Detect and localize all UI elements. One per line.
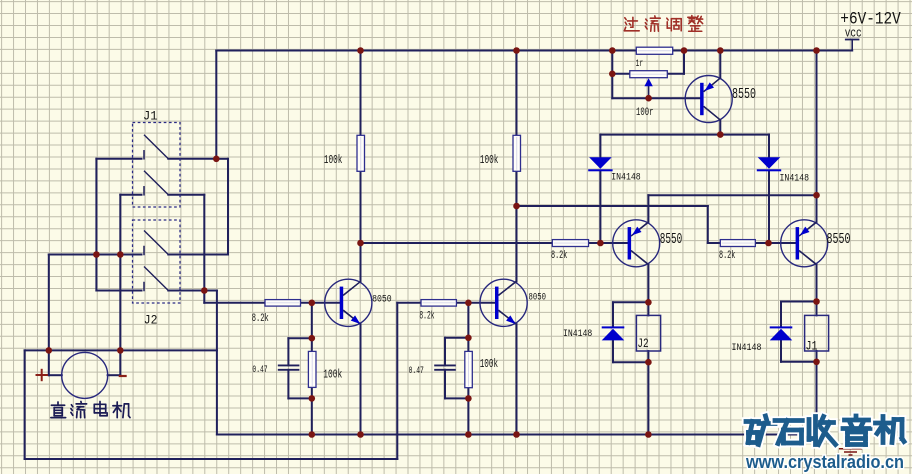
junction [813, 192, 820, 199]
svg-text:0.47: 0.47 [409, 365, 424, 377]
junction [309, 431, 316, 438]
svg-text:8050: 8050 [529, 292, 547, 304]
wire [119, 195, 121, 375]
svg-text:100k: 100k [480, 357, 498, 371]
wire [816, 51, 818, 223]
wire [444, 370, 446, 399]
junction [201, 287, 208, 294]
wire [611, 51, 613, 99]
wire [287, 370, 289, 399]
watermark 矿石收音机 [746, 417, 759, 426]
wire [612, 302, 614, 326]
junction [597, 240, 604, 247]
wire [95, 159, 97, 291]
resistor 1r [636, 47, 672, 54]
junction [645, 299, 652, 306]
svg-text:8550: 8550 [827, 232, 851, 248]
junction [309, 300, 316, 307]
junction [681, 47, 688, 54]
wire [360, 324, 362, 434]
wire [168, 254, 228, 256]
wire [647, 264, 649, 315]
junction [309, 335, 316, 342]
svg-text:100k: 100k [323, 368, 342, 382]
wire [287, 338, 289, 365]
junction [645, 95, 652, 102]
wire [683, 51, 685, 74]
svg-text:+6V-12V: +6V-12V [840, 9, 901, 29]
junction [357, 47, 364, 54]
wire [816, 351, 818, 435]
wire [143, 283, 145, 291]
svg-text:100k: 100k [480, 153, 499, 167]
wire [612, 97, 700, 99]
wire [613, 301, 648, 303]
wire [360, 51, 362, 244]
relay J1 dashed box [133, 123, 181, 208]
wire [631, 222, 648, 236]
wire [456, 302, 495, 304]
diode D4 IN4148 [770, 326, 793, 328]
potentiometer 100r wiper arrow [648, 86, 650, 98]
relay coil J2 [636, 315, 660, 351]
wire [707, 206, 709, 243]
wire [445, 397, 468, 399]
wire [647, 351, 649, 435]
svg-text:100r: 100r [636, 107, 654, 119]
wire [499, 282, 517, 296]
wire [96, 290, 141, 292]
motor minus mark [120, 375, 126, 377]
junction [357, 431, 364, 438]
svg-text:8.2k: 8.2k [551, 250, 568, 262]
resistor 8.2k Q5-base [421, 300, 456, 307]
wire [600, 134, 769, 136]
wire [648, 194, 816, 196]
capacitor 0.47 C1 [278, 364, 300, 366]
wire [168, 158, 216, 160]
junction [813, 431, 820, 438]
wire [216, 158, 228, 160]
junction [117, 347, 124, 354]
wire [516, 51, 518, 282]
resistor 8.2k Q2-base [552, 240, 588, 247]
wire [781, 361, 817, 363]
svg-text:J2: J2 [637, 336, 648, 351]
wire [445, 337, 468, 339]
wire [781, 301, 817, 303]
wire [612, 340, 614, 362]
wire [799, 222, 816, 236]
resistor 100k RC2 [465, 351, 473, 387]
wire [768, 171, 770, 243]
transistor Q1 8550 [685, 76, 732, 123]
junction [813, 47, 820, 54]
wire [816, 264, 818, 315]
potentiometer 100r body [630, 71, 668, 78]
junction [46, 347, 53, 354]
junction [465, 300, 472, 307]
wire [780, 340, 782, 362]
svg-text:J1: J1 [143, 109, 158, 124]
junction [357, 240, 364, 247]
wire [599, 171, 601, 243]
svg-text:0.47: 0.47 [252, 364, 267, 376]
wire [204, 302, 340, 304]
junction [609, 47, 616, 54]
svg-text:8.2k: 8.2k [719, 250, 736, 262]
wire [631, 251, 648, 265]
svg-text:www.crystalradio.cn: www.crystalradio.cn [745, 451, 904, 472]
junction [465, 335, 472, 342]
wire [227, 159, 229, 255]
wire [288, 337, 311, 339]
wire [647, 195, 649, 222]
wire [216, 291, 218, 435]
junction [465, 395, 472, 402]
wire [704, 78, 721, 92]
wire [708, 242, 796, 244]
junction [93, 251, 100, 258]
label motor 直流电机 [57, 402, 59, 405]
wire [143, 151, 145, 159]
wire [168, 290, 204, 292]
svg-text:J1: J1 [806, 338, 818, 353]
svg-text:1r: 1r [636, 59, 644, 70]
wire [311, 303, 313, 435]
wire [120, 194, 141, 196]
junction [765, 240, 772, 247]
wire [361, 242, 629, 244]
junction [717, 47, 724, 54]
wire [25, 349, 217, 351]
diode D2 IN4148 [758, 157, 781, 169]
label title 过流调整 [628, 20, 638, 22]
junction [645, 359, 652, 366]
wire [203, 195, 205, 303]
wire [343, 310, 360, 324]
wire [49, 254, 142, 256]
svg-text:IN4148: IN4148 [780, 173, 810, 185]
svg-text:IN4148: IN4148 [732, 342, 762, 354]
capacitor 0.47 C2 [434, 364, 456, 366]
wire [396, 303, 398, 459]
svg-text:IN4148: IN4148 [563, 328, 592, 340]
wire [143, 247, 145, 255]
wire [144, 135, 168, 159]
wire [49, 374, 62, 376]
svg-text:8.2k: 8.2k [419, 310, 434, 322]
resistor 8.2k Q4-base [265, 300, 301, 307]
wire [343, 282, 360, 296]
transistor Q5 8050 [480, 279, 527, 326]
junction [513, 203, 520, 210]
motor plus mark [37, 374, 48, 376]
wire [768, 135, 770, 158]
transistor Q2 8550 [613, 220, 660, 267]
motor M 直流电机 [62, 352, 108, 398]
wire [144, 171, 168, 195]
wire [517, 205, 708, 207]
wire [204, 290, 217, 292]
node GND rail [217, 434, 817, 436]
junction [117, 251, 124, 258]
wire [360, 243, 362, 282]
power VCC symbol [846, 39, 859, 41]
resistor 100k left column [357, 135, 365, 171]
wire [144, 267, 168, 291]
junction [213, 156, 220, 163]
wire [168, 194, 204, 196]
wire [24, 350, 26, 459]
ground [839, 448, 862, 450]
svg-text:IN4148: IN4148 [611, 172, 641, 184]
wire [288, 397, 311, 399]
wire [215, 51, 217, 159]
svg-text:J2: J2 [144, 313, 158, 328]
svg-text:100k: 100k [324, 153, 343, 167]
diode D3 IN4148 [602, 326, 625, 328]
wire [667, 73, 684, 75]
junction [309, 395, 316, 402]
svg-text:8550: 8550 [660, 232, 683, 248]
svg-text:8050: 8050 [372, 293, 392, 305]
junction [645, 431, 652, 438]
node VCC rail [216, 50, 852, 52]
junction [717, 131, 724, 138]
resistor 8.2k Q3-base [720, 240, 755, 247]
wire [719, 51, 721, 79]
wire [108, 374, 121, 376]
wire [516, 324, 518, 434]
diode D1 IN4148 [589, 157, 612, 169]
wire [612, 73, 630, 75]
svg-text:8.2k: 8.2k [252, 313, 269, 325]
wire [444, 338, 446, 366]
transistor Q4 8050 [325, 279, 372, 326]
junction [465, 431, 472, 438]
wire [799, 251, 816, 265]
wire [143, 187, 145, 195]
wire [96, 158, 141, 160]
resistor 100k mid column [513, 135, 521, 171]
junction [813, 359, 820, 366]
svg-text:8550: 8550 [732, 87, 756, 103]
wire [613, 361, 648, 363]
wire [780, 302, 782, 327]
wire [499, 310, 517, 324]
wire [25, 458, 398, 460]
resistor 100k RC1 [308, 351, 316, 387]
wire [144, 231, 168, 255]
transistor Q3 8550 [781, 220, 828, 267]
junction [513, 431, 520, 438]
junction [813, 298, 820, 305]
wire [704, 106, 721, 120]
wire [719, 120, 721, 135]
relay J2 dashed box [133, 220, 181, 303]
wire [48, 255, 50, 376]
junction [513, 47, 520, 54]
wire [467, 303, 469, 435]
wire [397, 302, 421, 304]
junction [609, 71, 616, 78]
relay coil J1 [805, 315, 829, 351]
wire [599, 135, 601, 158]
